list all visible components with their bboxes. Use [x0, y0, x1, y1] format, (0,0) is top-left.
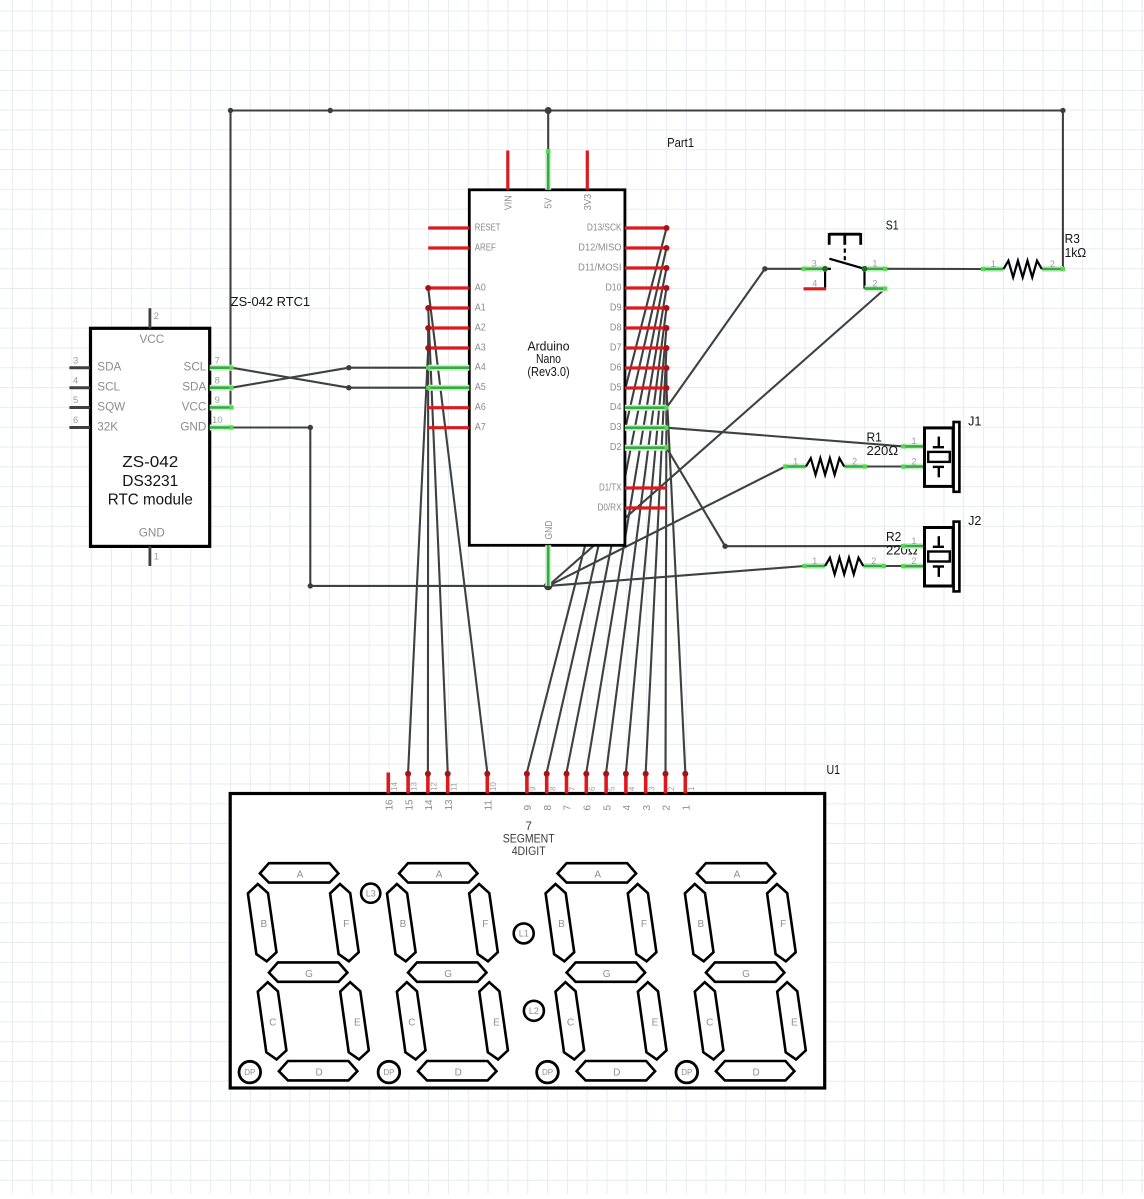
svg-text:1: 1 — [682, 805, 693, 811]
svg-text:E: E — [652, 1018, 659, 1029]
node J2 pin1 bend — [722, 544, 727, 549]
svg-text:1: 1 — [911, 436, 916, 446]
svg-text:L2: L2 — [529, 1006, 539, 1016]
wire D9 to U1 pin5 — [606, 308, 666, 773]
label S1 — [886, 219, 899, 233]
svg-text:3: 3 — [812, 259, 817, 269]
svg-text:2: 2 — [1050, 259, 1055, 269]
svg-text:1: 1 — [793, 456, 798, 466]
display LED L3 — [361, 884, 380, 903]
node rail left corner — [228, 108, 233, 113]
svg-text:3: 3 — [647, 786, 656, 791]
wire D10 to U1 pin6 — [586, 288, 666, 773]
svg-text:R1: R1 — [867, 430, 882, 444]
svg-text:DP: DP — [542, 1068, 553, 1077]
wire R1 pin1 to GND — [548, 467, 785, 586]
svg-text:AREF: AREF — [475, 242, 496, 253]
svg-text:9: 9 — [523, 805, 534, 811]
label U1 — [827, 763, 841, 777]
svg-text:GND: GND — [544, 521, 555, 540]
node RTC GND bend 1 — [308, 425, 313, 430]
wire D8 to U1 pin4 — [626, 328, 667, 773]
svg-text:G: G — [742, 969, 750, 980]
svg-text:D6: D6 — [610, 362, 622, 373]
svg-text:VCC: VCC — [182, 401, 207, 414]
svg-text:D13/SCK: D13/SCK — [587, 222, 622, 233]
svg-text:32K: 32K — [97, 421, 118, 434]
connector J2 — [901, 522, 959, 592]
svg-text:SEGMENT: SEGMENT — [503, 834, 555, 846]
wire D4 to S1 pin3 — [667, 269, 804, 408]
svg-text:D2: D2 — [610, 442, 622, 453]
svg-text:D11/MOSI: D11/MOSI — [578, 262, 622, 273]
svg-text:D3: D3 — [610, 422, 622, 433]
svg-text:A: A — [594, 870, 601, 881]
wire 5V rail — [231, 109, 1063, 111]
svg-text:RTC module: RTC module — [108, 492, 193, 509]
svg-text:16: 16 — [385, 799, 396, 811]
svg-text:3: 3 — [642, 805, 653, 811]
svg-text:ZS-042 RTC1: ZS-042 RTC1 — [231, 295, 310, 309]
svg-text:8: 8 — [215, 375, 220, 386]
svg-text:Part1: Part1 — [667, 136, 694, 150]
wire D7 to U1 pin3 — [646, 348, 667, 773]
svg-text:ZS-042: ZS-042 — [122, 454, 178, 471]
wire A3 to U1 pin15 — [408, 348, 428, 773]
svg-text:DP: DP — [244, 1068, 255, 1077]
svg-text:C: C — [567, 1018, 574, 1029]
wire RTC SCL to A5 — [232, 368, 429, 388]
display colon LED L1 — [514, 923, 534, 943]
svg-text:1: 1 — [991, 259, 996, 269]
display digit 4 segments — [676, 863, 806, 1083]
svg-text:D7: D7 — [610, 342, 622, 353]
svg-text:B: B — [400, 919, 407, 930]
node rail 5V junction — [545, 107, 552, 114]
svg-text:2: 2 — [852, 456, 857, 466]
svg-text:C: C — [408, 1018, 415, 1029]
resistor R1 — [783, 456, 867, 475]
svg-text:R2: R2 — [886, 530, 901, 544]
svg-text:F: F — [482, 919, 488, 930]
wire S1 pin2 to GND — [548, 289, 885, 586]
svg-text:G: G — [444, 969, 452, 980]
svg-text:SCL: SCL — [184, 361, 207, 374]
svg-text:G: G — [305, 969, 313, 980]
svg-text:D12/MISO: D12/MISO — [578, 242, 621, 253]
wire R2 pin2 to J2 pin2 — [884, 565, 903, 567]
svg-text:8: 8 — [548, 786, 557, 791]
display digit 3 segments — [537, 863, 667, 1083]
svg-text:A1: A1 — [475, 302, 486, 313]
svg-text:1: 1 — [911, 536, 916, 546]
svg-text:13: 13 — [410, 782, 419, 791]
wire rail to RTC VCC — [229, 111, 231, 408]
svg-text:5: 5 — [602, 805, 613, 811]
svg-text:E: E — [791, 1018, 798, 1029]
svg-text:11: 11 — [484, 800, 495, 811]
svg-text:4: 4 — [73, 375, 78, 386]
svg-text:3V3: 3V3 — [583, 193, 594, 210]
svg-text:7: 7 — [525, 821, 531, 833]
svg-text:220Ω: 220Ω — [867, 444, 899, 458]
RTC module ZS-042 RTC1 — [69, 308, 233, 566]
svg-text:5: 5 — [608, 786, 617, 791]
svg-text:J1: J1 — [968, 414, 981, 428]
svg-text:VIN: VIN — [504, 195, 515, 210]
svg-text:4: 4 — [622, 805, 633, 811]
label ZS-042 RTC1 — [231, 295, 310, 309]
svg-text:A4: A4 — [475, 362, 486, 373]
wire A2 to U1 pin14 — [427, 328, 429, 773]
svg-text:R3: R3 — [1065, 232, 1080, 246]
svg-text:D5: D5 — [610, 382, 622, 393]
svg-text:D10: D10 — [606, 282, 622, 293]
node S1 pin3 bend — [762, 266, 767, 271]
label R3 1kOhm — [1065, 232, 1087, 260]
7-segment display U1 body — [230, 771, 825, 1088]
svg-text:RESET: RESET — [475, 222, 501, 233]
svg-text:A0: A0 — [475, 282, 486, 293]
svg-text:F: F — [780, 919, 786, 930]
svg-text:2: 2 — [911, 556, 916, 566]
svg-text:9: 9 — [215, 395, 220, 406]
node A4 bend — [346, 365, 351, 370]
svg-text:L1: L1 — [519, 929, 529, 939]
svg-text:1: 1 — [154, 552, 159, 563]
svg-text:1: 1 — [687, 786, 696, 791]
svg-text:GND: GND — [180, 421, 206, 434]
svg-text:D1/TX: D1/TX — [599, 482, 622, 493]
svg-text:8: 8 — [543, 805, 554, 811]
label J2 — [968, 514, 981, 528]
svg-text:A2: A2 — [475, 322, 486, 333]
node RTC GND bend 2 — [308, 583, 313, 588]
svg-text:C: C — [706, 1018, 713, 1029]
svg-text:10: 10 — [489, 782, 498, 791]
svg-text:14: 14 — [390, 782, 399, 791]
svg-text:F: F — [343, 919, 349, 930]
svg-text:E: E — [354, 1018, 361, 1029]
svg-text:4: 4 — [812, 279, 817, 289]
svg-text:A: A — [436, 870, 443, 881]
svg-text:7: 7 — [563, 805, 574, 811]
node rail right corner — [1060, 108, 1065, 113]
svg-text:D4: D4 — [610, 402, 622, 413]
wire D2 to J2 pin1 — [667, 448, 904, 547]
svg-text:15: 15 — [404, 799, 415, 811]
wire D3 to J1 pin1 — [667, 428, 904, 447]
svg-text:S1: S1 — [886, 219, 899, 233]
display digit 1 segments — [239, 863, 369, 1083]
svg-text:A: A — [734, 870, 741, 881]
svg-text:B: B — [260, 919, 267, 930]
display digit 2 segments — [378, 863, 508, 1083]
svg-text:4: 4 — [628, 786, 637, 791]
wire D12 to U1 pin8 — [547, 248, 667, 773]
svg-text:A: A — [297, 870, 304, 881]
svg-text:6: 6 — [583, 805, 594, 811]
svg-text:10: 10 — [212, 415, 223, 426]
wire R2 pin1 to GND — [548, 566, 804, 586]
wire A0 to U1 pin11 — [428, 288, 487, 773]
svg-text:E: E — [493, 1018, 500, 1029]
svg-text:9: 9 — [529, 786, 538, 791]
svg-text:G: G — [603, 969, 611, 980]
Arduino Nano Part1 — [425, 149, 669, 586]
svg-text:(Rev3.0): (Rev3.0) — [527, 365, 569, 379]
svg-text:14: 14 — [424, 799, 435, 811]
wire R1 pin2 to J1 pin2 — [865, 465, 903, 467]
svg-text:6: 6 — [588, 786, 597, 791]
label R1 220Ohm — [867, 430, 899, 458]
svg-text:2: 2 — [872, 278, 877, 288]
label Part1 — [667, 136, 694, 150]
label R2 220Ohm — [886, 530, 918, 558]
wire A1 to U1 pin13 — [428, 308, 448, 773]
svg-text:U1: U1 — [827, 763, 841, 777]
svg-text:A6: A6 — [475, 402, 486, 413]
svg-text:2: 2 — [667, 786, 676, 791]
svg-text:SCL: SCL — [97, 381, 120, 394]
svg-text:GND: GND — [139, 526, 165, 539]
svg-text:D0/RX: D0/RX — [598, 502, 622, 513]
svg-text:C: C — [269, 1018, 276, 1029]
node GND junction — [544, 582, 553, 591]
svg-text:1: 1 — [812, 556, 817, 566]
svg-text:2: 2 — [871, 556, 876, 566]
svg-text:7: 7 — [568, 786, 577, 791]
wire S1 pin1 to R3 pin1 — [885, 268, 983, 270]
svg-text:J2: J2 — [968, 514, 981, 528]
svg-text:2: 2 — [154, 311, 159, 322]
svg-text:D: D — [752, 1067, 759, 1078]
svg-text:B: B — [697, 919, 704, 930]
svg-text:2: 2 — [911, 456, 916, 466]
svg-text:5: 5 — [73, 395, 78, 406]
svg-text:6: 6 — [73, 415, 78, 426]
node rail bend — [328, 108, 333, 113]
svg-text:13: 13 — [444, 799, 455, 811]
svg-text:SQW: SQW — [97, 401, 125, 414]
wire D5 to U1 pin1 — [667, 388, 686, 773]
svg-text:1: 1 — [872, 259, 877, 269]
wire 5V stub riser — [547, 111, 549, 152]
wire D13 to U1 pin9 — [527, 228, 667, 773]
svg-text:7: 7 — [215, 355, 220, 366]
svg-text:D: D — [315, 1067, 322, 1078]
svg-text:A7: A7 — [475, 422, 486, 433]
svg-text:11: 11 — [449, 782, 458, 791]
svg-text:3: 3 — [73, 355, 78, 366]
svg-text:4DIGIT: 4DIGIT — [512, 846, 546, 858]
svg-text:DP: DP — [681, 1068, 692, 1077]
wire RTC GND to GND net — [232, 428, 549, 586]
svg-text:SDA: SDA — [97, 361, 121, 374]
svg-text:B: B — [558, 919, 565, 930]
svg-text:DS3231: DS3231 — [122, 473, 178, 490]
svg-text:2: 2 — [662, 805, 673, 811]
wire R3 pin2 to 5V rail — [1062, 111, 1064, 270]
svg-text:12: 12 — [430, 782, 439, 791]
svg-text:1kΩ: 1kΩ — [1065, 246, 1087, 260]
svg-text:DP: DP — [383, 1068, 394, 1077]
resistor R3 — [981, 259, 1065, 278]
svg-text:L3: L3 — [366, 888, 376, 898]
svg-text:D9: D9 — [610, 302, 622, 313]
label J1 — [968, 414, 981, 428]
wire RTC SDA to A4 — [232, 368, 429, 388]
svg-text:SDA: SDA — [182, 381, 206, 394]
resistor R2 — [802, 556, 886, 575]
wire D11 to U1 pin7 — [567, 268, 667, 773]
svg-text:D8: D8 — [610, 322, 622, 333]
svg-text:D: D — [455, 1067, 462, 1078]
svg-text:D: D — [613, 1067, 620, 1078]
display colon LED L2 — [524, 1001, 544, 1021]
svg-text:VCC: VCC — [139, 333, 164, 346]
connector J1 — [901, 422, 959, 492]
svg-text:A3: A3 — [475, 342, 486, 353]
svg-text:5V: 5V — [544, 198, 555, 209]
node A5 bend — [346, 385, 351, 390]
pushbutton S1 — [801, 233, 887, 291]
wire D6 to U1 pin2 — [666, 368, 667, 773]
svg-text:F: F — [641, 919, 647, 930]
svg-text:A5: A5 — [475, 382, 486, 393]
